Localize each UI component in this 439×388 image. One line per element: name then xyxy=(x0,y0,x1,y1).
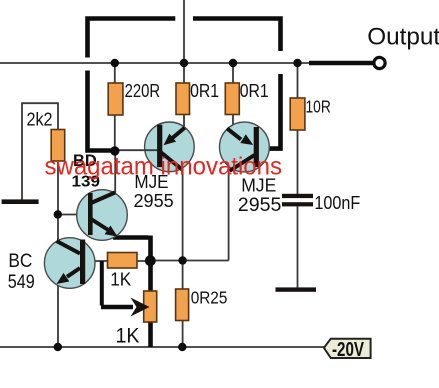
transistor Q3 MJE2955 right xyxy=(220,122,270,172)
resistor 0R1 b xyxy=(225,83,239,115)
svg-text:Output: Output xyxy=(367,23,439,50)
wire 220R branch xyxy=(114,63,116,151)
wire mid node horizontal xyxy=(151,260,229,262)
svg-text:100nF: 100nF xyxy=(314,192,360,213)
preset 1K body xyxy=(144,291,157,322)
capacitor C1 100nF xyxy=(282,194,313,207)
svg-text:1K: 1K xyxy=(110,270,131,290)
svg-text:BC: BC xyxy=(8,250,32,272)
wire BC549 base to 1K xyxy=(85,260,151,262)
wire output stub xyxy=(309,61,373,66)
wire 0R1-a branch xyxy=(183,63,185,128)
wire Q3 collector drop xyxy=(228,169,230,261)
output terminal xyxy=(374,57,385,68)
resistor 1K horizontal xyxy=(108,253,138,269)
svg-text:swagatam innovations: swagatam innovations xyxy=(45,153,283,181)
ground bar left xyxy=(2,199,39,204)
resistor 0R25 xyxy=(176,289,189,321)
wire 2k2 bottom / BC549 vertical xyxy=(57,161,59,347)
wire Q2 collector drop xyxy=(182,168,184,261)
wire BD139 base xyxy=(58,214,89,216)
svg-text:1K: 1K xyxy=(116,324,141,348)
svg-text:-20V: -20V xyxy=(332,339,364,361)
transistor Q2 MJE2955 left xyxy=(115,122,194,172)
wire 2k2 top loop to left ground xyxy=(22,103,58,200)
wire thick drive bus right lower xyxy=(270,74,281,149)
supply tag -20V xyxy=(324,339,371,361)
wire bottom negative rail xyxy=(0,346,324,348)
wire 0R25 branch xyxy=(182,261,184,348)
wire Q3 base link xyxy=(258,147,271,151)
wire thick drive bus left lower xyxy=(88,71,112,151)
ground bar below capacitor xyxy=(276,287,317,291)
wire wiper riser xyxy=(100,261,104,306)
wire Q1 emitter to preset xyxy=(113,236,151,292)
wire thick drive bus right top xyxy=(193,19,281,52)
wire capacitor to ground xyxy=(297,206,299,289)
transistor Q4 BC549 xyxy=(44,238,95,289)
svg-text:10R: 10R xyxy=(306,97,331,117)
resistor 220R xyxy=(108,83,123,115)
preset wiper arrow xyxy=(131,298,150,317)
transistor Q1 BD139 xyxy=(77,190,128,241)
svg-text:2k2: 2k2 xyxy=(27,110,53,130)
svg-text:0R1: 0R1 xyxy=(190,80,219,101)
wire wiper horizontal xyxy=(101,305,133,309)
svg-text:2955: 2955 xyxy=(238,195,282,216)
svg-text:0R1: 0R1 xyxy=(240,80,269,101)
resistor 2k2 xyxy=(51,130,64,162)
wire top positive rail xyxy=(0,62,310,64)
wire 10R to capacitor xyxy=(297,63,299,194)
svg-text:2955: 2955 xyxy=(134,191,174,211)
svg-text:0R25: 0R25 xyxy=(191,288,228,308)
resistor 10R xyxy=(290,98,305,130)
wire BD139 collector riser xyxy=(114,151,116,194)
svg-text:220R: 220R xyxy=(125,80,161,101)
svg-text:549: 549 xyxy=(8,271,35,293)
wire thick drive bus left top xyxy=(88,19,176,58)
wire 0R1-b branch xyxy=(232,63,234,125)
resistor 0R1 a xyxy=(176,83,190,115)
wire preset to bottom rail xyxy=(148,322,153,347)
wire top center vertical xyxy=(183,0,185,63)
